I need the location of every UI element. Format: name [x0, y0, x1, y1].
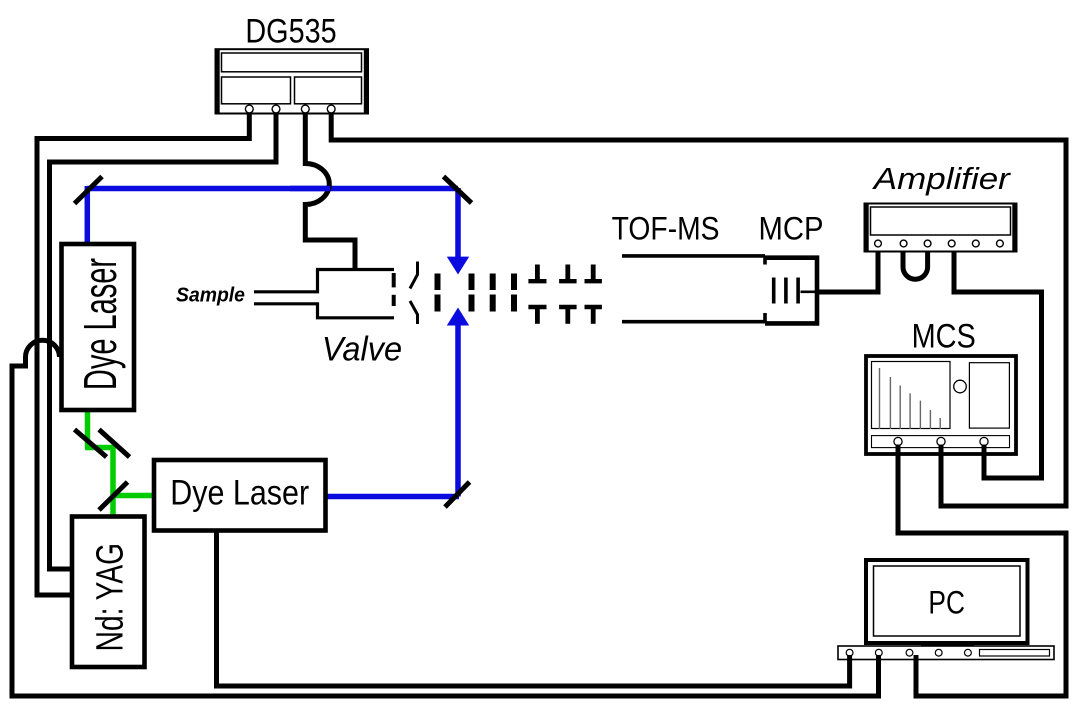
- svg-text:Dye Laser: Dye Laser: [170, 473, 309, 512]
- svg-text:Valve: Valve: [322, 331, 402, 369]
- svg-text:Nd: YAG: Nd: YAG: [89, 543, 131, 651]
- svg-text:Amplifier: Amplifier: [872, 161, 1012, 195]
- svg-text:PC: PC: [928, 585, 965, 621]
- svg-text:MCP: MCP: [759, 212, 824, 247]
- svg-text:Dye Laser: Dye Laser: [75, 258, 127, 390]
- svg-text:TOF-MS: TOF-MS: [612, 212, 720, 247]
- svg-text:Sample: Sample: [176, 284, 245, 306]
- svg-text:MCS: MCS: [912, 316, 976, 355]
- svg-text:DG535: DG535: [245, 11, 336, 50]
